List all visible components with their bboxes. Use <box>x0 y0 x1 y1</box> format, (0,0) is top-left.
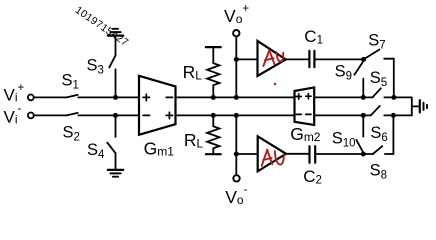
op-amp A bottom <box>258 136 286 171</box>
wire bus1 right (Gm2 to S5) <box>314 96 372 98</box>
label Av bottom (red) <box>262 150 284 166</box>
node Vo- branch <box>234 152 239 157</box>
wire bus1 Gm1 to Gm2 <box>176 96 295 98</box>
node J2 <box>361 152 366 157</box>
node Vi- terminal <box>28 113 34 119</box>
svg-text:Vo-: Vo- <box>225 184 247 205</box>
svg-text:RL: RL <box>184 130 204 151</box>
wire bus2 Gm1 to Gm2 <box>176 114 295 116</box>
node Vo- terminal <box>233 175 239 181</box>
svg-text:C1: C1 <box>304 27 323 47</box>
resistor RL bottom <box>212 115 214 126</box>
svg-text:S3: S3 <box>87 56 104 76</box>
svg-text:RL: RL <box>183 62 203 83</box>
wire S2 to Gm1 <box>78 114 139 116</box>
wire S1 to Gm1 <box>78 96 139 98</box>
node B1 <box>361 113 366 118</box>
switch S4 <box>115 115 117 137</box>
switch S9 <box>354 61 363 75</box>
op-amp Gm1 <box>139 76 176 135</box>
wire amp to C2 <box>286 153 308 155</box>
svg-text:S5: S5 <box>370 69 387 89</box>
svg-text:1019715427: 1019715427 <box>73 4 131 49</box>
node Vi+ terminal <box>28 95 34 101</box>
switch S1 <box>67 95 78 98</box>
ground top (flipped) <box>108 34 123 36</box>
node J1 <box>361 57 366 62</box>
switch S6 <box>371 106 380 115</box>
ground bottom <box>108 169 123 171</box>
wire C1 to J1 <box>314 58 363 60</box>
node junction bottom-left <box>113 113 118 118</box>
wire C2 to J2 <box>315 153 363 155</box>
svg-text:S4: S4 <box>87 141 105 161</box>
svg-text:S8: S8 <box>370 161 387 181</box>
svg-text:Gm2: Gm2 <box>290 124 321 144</box>
svg-text:Vi-: Vi- <box>4 103 22 127</box>
wire to amp A top <box>236 58 257 60</box>
switch S7 <box>364 50 380 60</box>
node B2 <box>391 113 396 118</box>
wire bus2 right (Gm2 to S6) <box>314 114 371 116</box>
svg-text:Gm1: Gm1 <box>144 138 175 158</box>
svg-text:S10: S10 <box>332 130 356 150</box>
node junction top-left <box>113 95 118 100</box>
node Vo+ terminal <box>233 30 239 36</box>
node M2 <box>391 95 396 100</box>
wire bus2 to Vo- <box>235 115 237 175</box>
wire Vo+ down to bus1 <box>235 37 237 98</box>
switch S3 <box>115 69 117 97</box>
svg-text:S6: S6 <box>370 124 387 144</box>
capacitor C1 <box>308 51 310 67</box>
ground right (sideways) <box>419 100 421 112</box>
resistor RL top <box>206 46 221 48</box>
label Av top (red) <box>263 50 283 66</box>
capacitor C2 <box>308 146 310 163</box>
svg-text:Vo+: Vo+ <box>224 3 249 26</box>
switch S8 <box>363 153 373 155</box>
op-amp A top <box>258 41 286 76</box>
wire right bracket <box>411 97 413 115</box>
svg-text:S9: S9 <box>335 62 352 82</box>
node bus2 dots <box>211 113 216 118</box>
svg-text:Vi+: Vi+ <box>4 82 25 105</box>
svg-text:C2: C2 <box>303 167 322 187</box>
switch S10 <box>362 115 364 136</box>
node bus1 dots <box>211 95 216 100</box>
switch S5 <box>373 88 381 97</box>
svg-text:S2: S2 <box>63 124 80 144</box>
wire amp to C1 <box>286 58 309 60</box>
switch S2 <box>67 113 78 116</box>
svg-text:S7: S7 <box>368 32 385 52</box>
red speck <box>274 83 276 85</box>
wire Vi+ to S1 <box>34 96 67 98</box>
wire to amp A bottom <box>236 153 257 155</box>
node Vo+ branch <box>234 57 239 62</box>
node M1 <box>361 95 366 100</box>
op-amp Gm2 <box>295 87 315 125</box>
svg-text:S1: S1 <box>62 72 79 92</box>
wire Vi- to S2 <box>34 114 67 116</box>
